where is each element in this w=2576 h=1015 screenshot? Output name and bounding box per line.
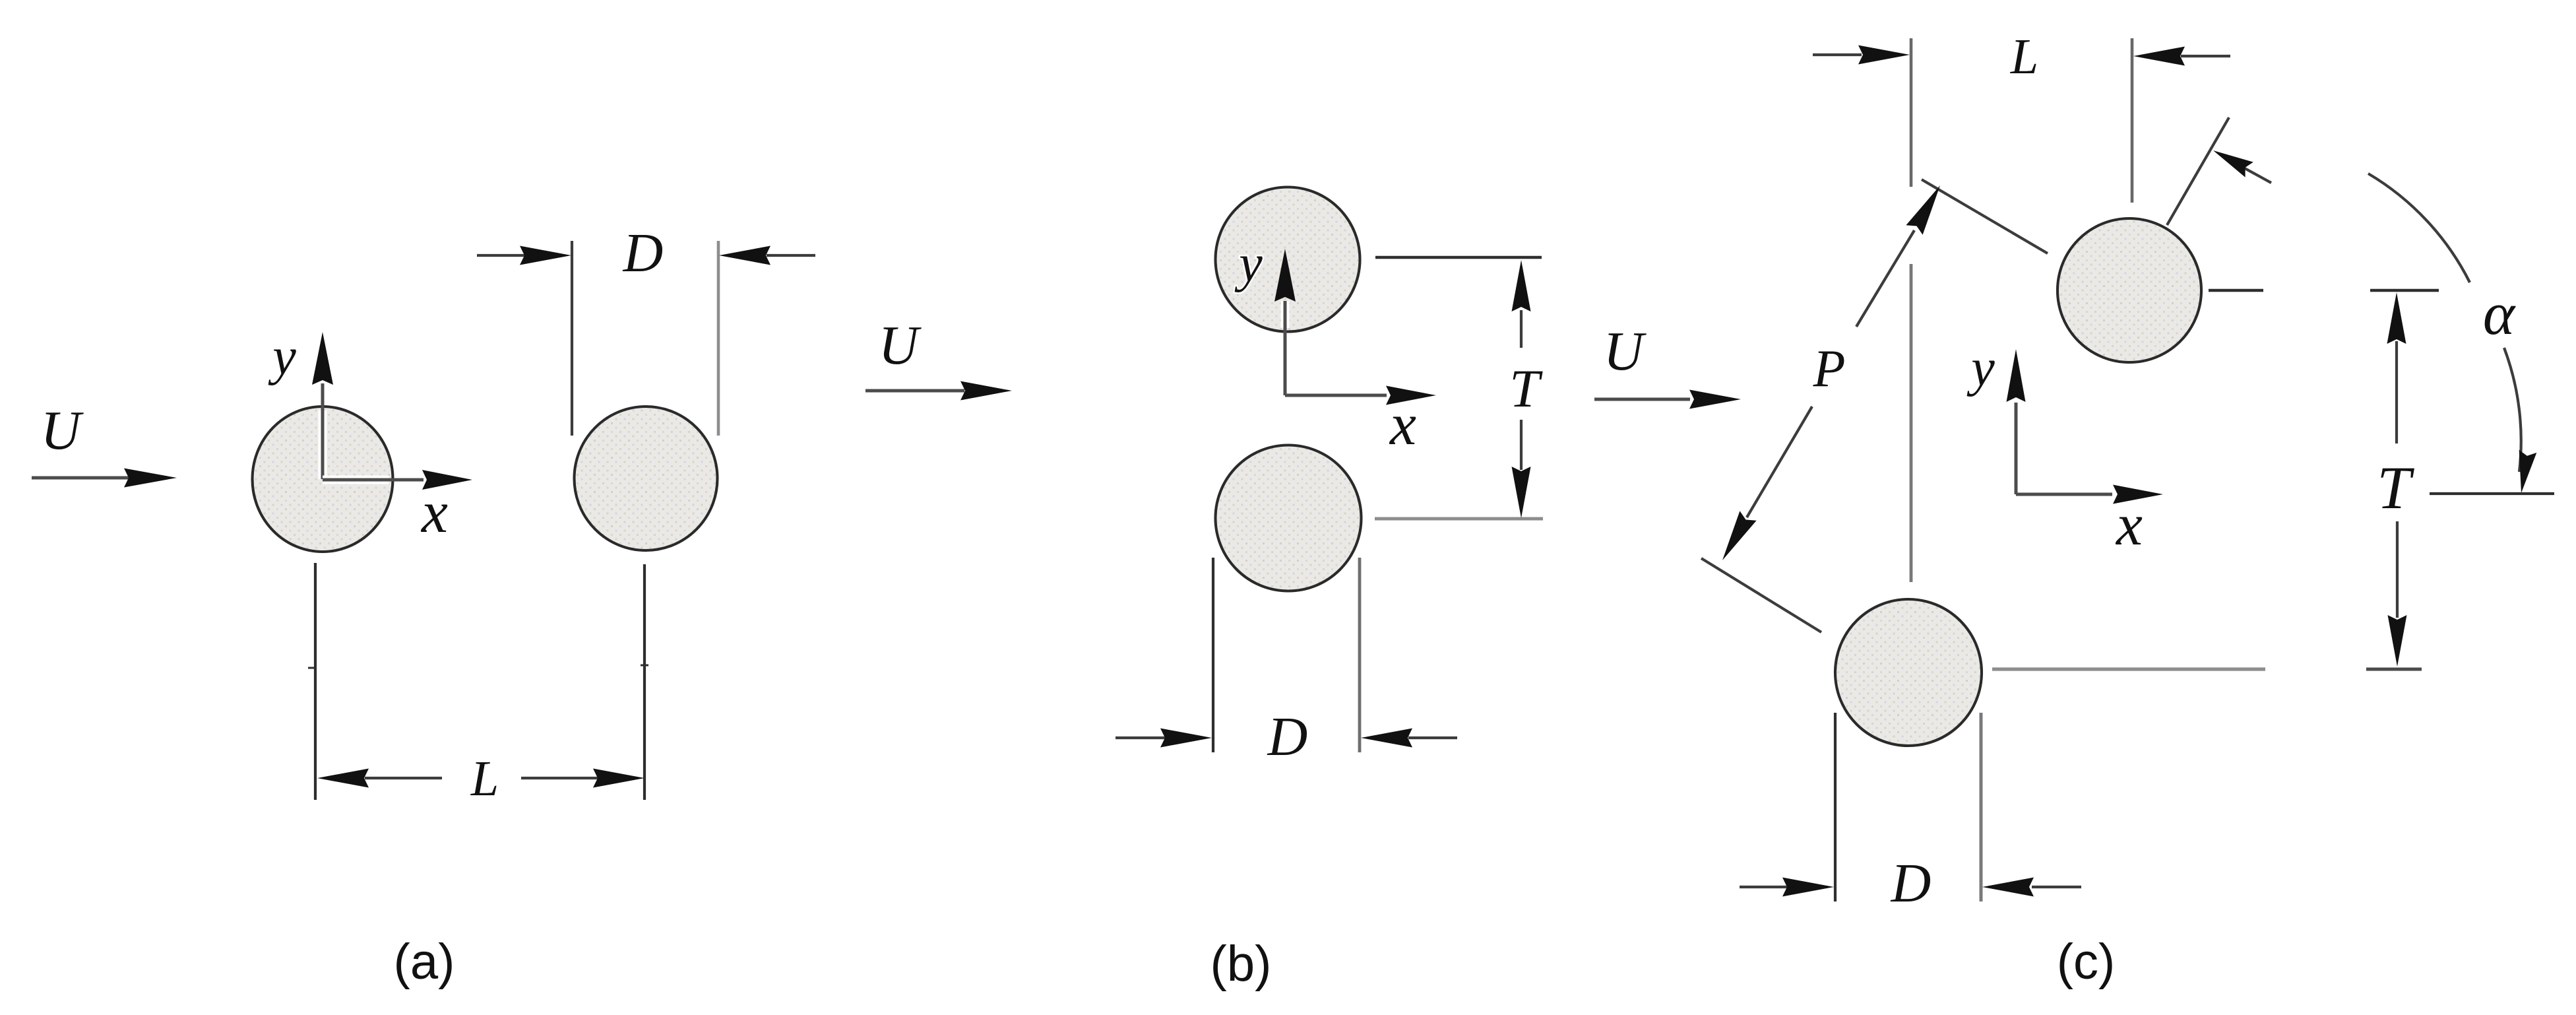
D arrow left (b): [1115, 737, 1165, 739]
P dimension tick lower (c): [1701, 558, 1821, 632]
alpha arc lower (c): [2504, 348, 2521, 472]
D extension line left (c): [1834, 713, 1837, 901]
L arrow right (a): [521, 777, 598, 779]
svg-text:U: U: [879, 315, 922, 376]
svg-text:U: U: [1604, 321, 1647, 382]
lower cylinder reference line (c): [1992, 667, 2265, 671]
D arrow left (a): [477, 254, 525, 257]
svg-text:T: T: [1509, 358, 1543, 418]
D extension line left (b): [1212, 558, 1214, 752]
P arrow upper (c): [1856, 230, 1914, 327]
cylinder 1 (a) upstream: [253, 407, 393, 552]
svg-text:L: L: [2010, 29, 2038, 84]
svg-text:D: D: [1891, 853, 1932, 914]
L extension line right (a): [643, 564, 646, 800]
svg-text:(b): (b): [1210, 936, 1272, 992]
x-axis (c): [2016, 493, 2112, 496]
alpha reference line (c): [2430, 492, 2554, 495]
y-axis (b): [1281, 301, 1290, 395]
D arrow left (c): [1740, 886, 1788, 888]
L tick left (a): [308, 667, 316, 669]
cylinder 2 (c) lower: [1835, 599, 1982, 746]
D extension line right (b): [1358, 558, 1362, 752]
T arrow up (b): [1520, 310, 1523, 348]
L extension line left (a): [314, 563, 317, 800]
D arrow right (a): [767, 254, 815, 257]
P dimension tick upper (c): [1922, 180, 2048, 253]
T reference line bottom (b): [1375, 517, 1543, 521]
D arrow right (c): [2032, 886, 2081, 888]
y-axis (a): [319, 383, 327, 479]
alpha arrow at centre-line (c): [2236, 164, 2271, 183]
y-axis (c): [2015, 403, 2018, 494]
cylinder 2 (b) lower: [1216, 445, 1362, 591]
L arrow left (c): [1813, 53, 1862, 56]
svg-text:α: α: [2483, 280, 2516, 347]
cylinder 1 (c) upper: [2058, 218, 2201, 362]
T arrow down (c): [2396, 521, 2399, 618]
D extension line left (a): [571, 241, 573, 436]
alpha arc upper (c): [2368, 174, 2470, 282]
svg-text:U: U: [41, 400, 84, 461]
svg-text:x: x: [2115, 492, 2143, 558]
flow arrow U (a): [32, 476, 129, 480]
svg-text:T: T: [2377, 454, 2414, 521]
L extension line left lower (c): [1910, 264, 1913, 582]
svg-text:D: D: [623, 222, 664, 284]
svg-text:L: L: [470, 751, 499, 806]
svg-text:(a): (a): [394, 934, 455, 990]
cylinder 2 (a) downstream: [575, 407, 718, 550]
L arrow right (c): [2181, 55, 2230, 57]
svg-text:P: P: [1813, 340, 1846, 398]
D extension line right (c): [1980, 713, 1983, 901]
T reference tick top (c): [2370, 289, 2439, 292]
svg-text:x: x: [1389, 392, 1416, 457]
L arrow left (a): [365, 777, 442, 779]
T arrow down (b): [1520, 420, 1523, 470]
x-axis (b): [1285, 394, 1387, 397]
T reference tick bottom (c): [2366, 668, 2422, 671]
svg-text:x: x: [420, 480, 448, 545]
flow arrow U (b): [865, 389, 964, 393]
svg-text:(c): (c): [2057, 934, 2116, 990]
flow arrow U (c): [1594, 398, 1690, 401]
upper cylinder reference line (c): [2209, 289, 2263, 292]
T reference line top (b): [1375, 256, 1542, 259]
svg-text:y: y: [1966, 339, 1995, 397]
svg-text:y: y: [1234, 235, 1263, 293]
svg-text:y: y: [268, 328, 296, 386]
x-axis (a): [323, 476, 424, 484]
L extension line left upper (c): [1910, 38, 1913, 187]
T arrow up (c): [2395, 341, 2398, 443]
svg-text:D: D: [1267, 706, 1308, 768]
cylinder 1 (b) upper: [1216, 187, 1360, 332]
centre-line extension (c): [2167, 117, 2229, 225]
D arrow right (b): [1408, 737, 1457, 739]
L tick right (a): [641, 665, 648, 667]
L extension line right (c): [2131, 38, 2134, 203]
P arrow lower (c): [1747, 407, 1812, 517]
D extension line right (a): [717, 241, 720, 436]
